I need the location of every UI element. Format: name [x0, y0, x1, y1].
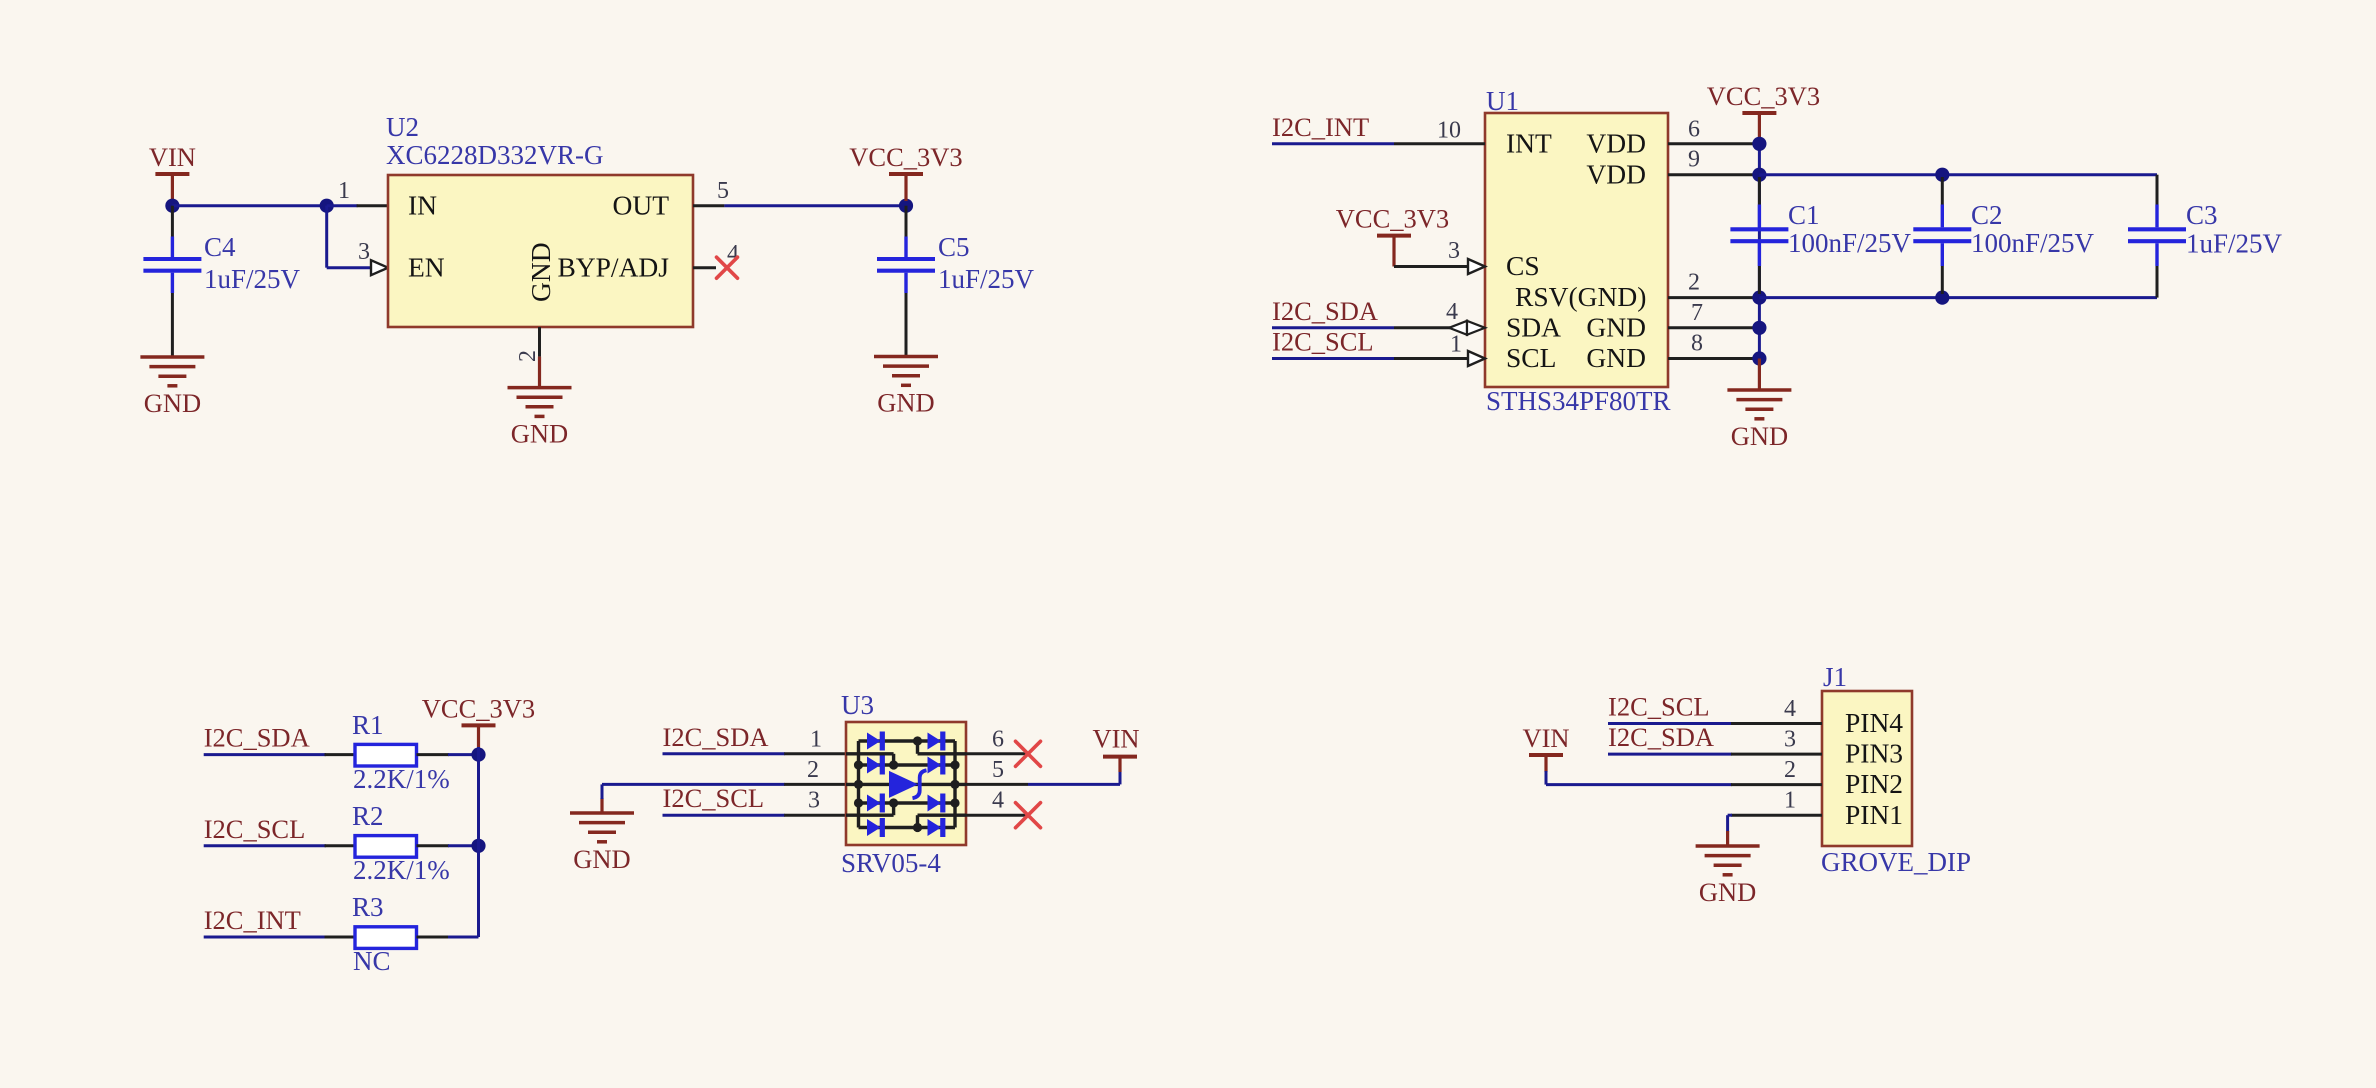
junction U1 pin7	[1752, 321, 1766, 335]
U3 inner row4	[859, 826, 956, 829]
svg-text:VCC_3V3: VCC_3V3	[422, 693, 535, 723]
svg-text:2.2K/1%: 2.2K/1%	[353, 764, 450, 794]
diode D3a	[867, 794, 885, 813]
svg-text:C3: C3	[2186, 200, 2218, 230]
svg-text:GND: GND	[1731, 421, 1788, 451]
svg-text:9: 9	[1688, 147, 1700, 173]
U3 junction row1	[913, 736, 922, 745]
wire J1 pin1 to ground	[1728, 814, 1732, 817]
U1 pin 1 stub	[1394, 357, 1467, 360]
svg-text:4: 4	[992, 788, 1004, 814]
wire gnd to U3 pin2	[600, 798, 603, 813]
wire I2C_SCL to R2	[204, 844, 326, 847]
svg-text:1uF/25V: 1uF/25V	[938, 264, 1035, 294]
svg-text:1: 1	[1784, 788, 1796, 814]
ground near U3	[570, 813, 634, 842]
svg-text:I2C_SCL: I2C_SCL	[1608, 692, 1710, 722]
svg-text:2: 2	[1784, 757, 1796, 783]
wire VIN to J1 pin2	[1545, 771, 1548, 785]
wire I2C_SCL to U3 pin3	[663, 814, 786, 817]
U1 pin 10 stub	[1394, 142, 1485, 145]
junction U1 pin9	[1752, 168, 1766, 182]
connector J1 body	[1822, 691, 1912, 846]
wire VCC column R1-R3	[477, 747, 480, 937]
ground under C4	[140, 357, 204, 386]
svg-text:GND: GND	[1699, 877, 1756, 907]
capacitor C4	[171, 206, 174, 237]
zener TVS diode	[889, 771, 918, 798]
svg-text:1: 1	[810, 727, 822, 753]
diode array U3 body	[846, 722, 966, 845]
U1 pin 7 stub	[1668, 326, 1759, 329]
svg-text:1uF/25V: 1uF/25V	[2186, 229, 2283, 259]
svg-text:2: 2	[515, 350, 541, 362]
svg-text:R2: R2	[352, 801, 384, 831]
svg-text:5: 5	[717, 178, 729, 204]
wire R1 to VCC column	[417, 753, 450, 756]
svg-text:CS: CS	[1506, 250, 1540, 281]
U3 inner row1	[859, 739, 956, 742]
svg-text:VIN: VIN	[149, 142, 196, 172]
capacitor C2	[1941, 177, 1944, 205]
U3 pin 1 stub	[784, 752, 846, 755]
U1 pin 4 bidirectional arrow	[1449, 321, 1467, 335]
svg-text:1uF/25V: 1uF/25V	[204, 264, 301, 294]
svg-text:NC: NC	[353, 946, 391, 976]
svg-text:C4: C4	[204, 232, 236, 262]
U3 inner right rail	[953, 741, 956, 828]
svg-text:C2: C2	[1971, 200, 2003, 230]
wire EN branch vertical	[325, 206, 328, 268]
svg-text:C1: C1	[1788, 200, 1820, 230]
no-connect X on U3 pin 6	[1016, 741, 1041, 766]
svg-text:PIN4: PIN4	[1845, 707, 1903, 738]
svg-text:GND: GND	[877, 388, 934, 418]
ground under U2	[508, 388, 572, 417]
wire branch to U2 pin 1	[327, 204, 358, 207]
wire GND return rail	[1759, 296, 2157, 299]
junction C2 bottom	[1935, 291, 1949, 305]
svg-text:6: 6	[992, 726, 1004, 752]
U1 pin 4 stub	[1394, 326, 1450, 329]
junction U1 pin6	[1752, 137, 1766, 151]
svg-text:PIN2: PIN2	[1845, 768, 1903, 799]
U1 pin 3 arrow	[1468, 259, 1485, 274]
U3 junction row2 riser	[889, 760, 898, 769]
U3 junction center left-rail	[854, 780, 863, 789]
svg-text:6: 6	[1688, 116, 1700, 142]
svg-text:100nF/25V: 100nF/25V	[1788, 228, 1912, 258]
wire R3 to VCC column	[417, 936, 450, 939]
svg-text:GROVE_DIP: GROVE_DIP	[1821, 847, 1971, 877]
diode D1a	[867, 732, 885, 751]
svg-text:7: 7	[1691, 300, 1703, 326]
capacitor C1	[1758, 177, 1761, 205]
U3 inner row2	[859, 763, 956, 766]
svg-text:I2C_SDA: I2C_SDA	[1272, 296, 1378, 326]
svg-text:PIN3: PIN3	[1845, 738, 1903, 769]
resistor R2	[355, 836, 417, 858]
svg-text:VCC_3V3: VCC_3V3	[849, 142, 962, 172]
U1 pin 8 stub	[1668, 357, 1759, 360]
junction node VIN/C4	[165, 199, 179, 213]
U3 riser pin3	[846, 814, 894, 817]
diode D2a	[867, 756, 885, 775]
no-connect X on U2 pin 4	[717, 257, 738, 278]
svg-text:PIN1: PIN1	[1845, 799, 1903, 830]
svg-text:STHS34PF80TR: STHS34PF80TR	[1486, 386, 1671, 416]
U2 pin 5 stub	[693, 204, 724, 207]
U2 pin 1 stub	[357, 204, 388, 207]
U3 pin 3 stub	[784, 814, 846, 817]
U2 pin 4 stub	[693, 266, 716, 269]
wire I2C_SDA to R1	[204, 753, 326, 756]
svg-text:I2C_SCL: I2C_SCL	[663, 783, 765, 813]
wire VDD rail	[1759, 173, 2157, 176]
U1 pin 3 stub	[1394, 265, 1467, 268]
U3 inner row3	[859, 801, 956, 804]
wire U3 pin5 to VIN	[1028, 783, 1120, 786]
junction U1 pin8	[1752, 351, 1766, 365]
svg-text:8: 8	[1691, 331, 1703, 357]
U3 riser pin6	[918, 752, 967, 755]
wire I2C_SDA (U1)	[1272, 326, 1394, 329]
wire I2C_INT	[1272, 142, 1394, 145]
U2 pin 2 stub	[538, 327, 541, 357]
svg-text:GND: GND	[511, 419, 568, 449]
svg-text:C5: C5	[938, 232, 970, 262]
junction node OUT/C5	[899, 199, 913, 213]
svg-text:GND: GND	[525, 242, 556, 302]
wire I2C_SCL to J1	[1608, 722, 1732, 725]
svg-text:SCL: SCL	[1506, 342, 1556, 373]
junction node IN/EN branch	[320, 199, 334, 213]
U3 junction row2 left-rail	[854, 760, 863, 769]
wire I2C_SDA to U3 pin1	[663, 752, 786, 755]
U3 junction row4	[913, 823, 922, 832]
svg-text:I2C_INT: I2C_INT	[204, 905, 301, 935]
svg-text:J1: J1	[1823, 662, 1847, 692]
no-connect X on U3 pin 4	[1016, 803, 1041, 828]
svg-text:VIN: VIN	[1522, 723, 1569, 753]
U3 pin 5 stub	[966, 783, 1028, 786]
U1 pin 9 stub	[1668, 173, 1759, 176]
U3 junction center right-rail	[950, 780, 959, 789]
svg-text:SDA: SDA	[1506, 311, 1561, 342]
svg-text:3: 3	[1784, 727, 1796, 753]
svg-text:U3: U3	[841, 690, 874, 720]
svg-text:3: 3	[1448, 238, 1460, 264]
junction U1 pin2	[1752, 291, 1766, 305]
svg-text:R3: R3	[352, 892, 384, 922]
op-amp U1 body	[1485, 113, 1668, 387]
svg-text:U2: U2	[386, 112, 419, 142]
wire I2C_SDA to J1	[1608, 753, 1732, 756]
ground under U1	[1727, 390, 1791, 419]
wire EN branch horizontal	[327, 266, 374, 269]
U3 junction row3 riser	[889, 798, 898, 807]
U3 pin 6 stub	[966, 752, 1028, 755]
wire U2 pin2 to ground	[538, 357, 541, 388]
svg-text:XC6228D332VR-G: XC6228D332VR-G	[386, 140, 604, 170]
svg-text:I2C_INT: I2C_INT	[1272, 112, 1369, 142]
svg-text:1: 1	[338, 178, 350, 204]
svg-text:5: 5	[992, 757, 1004, 783]
U3 inner left rail	[857, 741, 860, 828]
svg-text:2.2K/1%: 2.2K/1%	[353, 855, 450, 885]
svg-text:I2C_SCL: I2C_SCL	[204, 814, 306, 844]
svg-text:4: 4	[1446, 299, 1458, 325]
capacitor C3	[2156, 175, 2159, 205]
svg-text:GND: GND	[144, 388, 201, 418]
resistor R3	[355, 927, 417, 949]
U3 riser pin1	[846, 752, 894, 755]
wire R2 to VCC column	[417, 844, 450, 847]
wire VIN to EN-branch node	[172, 204, 326, 207]
svg-text:RSV(GND): RSV(GND)	[1515, 281, 1646, 312]
U1 pin 1 arrow	[1468, 351, 1485, 366]
svg-text:4: 4	[1784, 696, 1796, 722]
J1 pin 1 stub	[1731, 814, 1822, 817]
wire I2C_SCL (U1)	[1272, 357, 1394, 360]
U3 pin 4 stub	[966, 814, 1028, 817]
svg-text:10: 10	[1437, 118, 1461, 144]
junction C2 top	[1935, 168, 1949, 182]
U1 pin 2 stub	[1668, 296, 1759, 299]
ground under J1	[1696, 846, 1760, 875]
resistor R1	[355, 744, 417, 766]
svg-text:U1: U1	[1486, 86, 1519, 116]
svg-text:I2C_SDA: I2C_SDA	[1608, 722, 1714, 752]
U3 junction row2 right-rail	[950, 760, 959, 769]
capacitor C5	[905, 206, 908, 237]
svg-text:VDD: VDD	[1586, 127, 1646, 158]
svg-text:VCC_3V3: VCC_3V3	[1336, 204, 1449, 234]
svg-text:SRV05-4: SRV05-4	[841, 848, 941, 878]
svg-text:VIN: VIN	[1092, 724, 1139, 754]
svg-text:VDD: VDD	[1586, 158, 1646, 189]
U1 pin 6 stub	[1668, 142, 1759, 145]
junction R2/VCC	[471, 839, 485, 853]
diode D3b	[928, 794, 946, 813]
svg-text:100nF/25V: 100nF/25V	[1971, 228, 2095, 258]
svg-text:2: 2	[807, 757, 819, 783]
diode D1b	[928, 732, 946, 751]
svg-text:INT: INT	[1506, 127, 1552, 158]
svg-text:1: 1	[1450, 332, 1462, 358]
U3 junction row3 right-rail	[950, 798, 959, 807]
svg-text:R1: R1	[352, 710, 384, 740]
wire I2C_INT to R3	[204, 936, 326, 939]
U3 riser pin4	[918, 814, 967, 817]
svg-text:GND: GND	[1586, 342, 1646, 373]
svg-text:3: 3	[808, 788, 820, 814]
svg-text:IN: IN	[408, 189, 437, 220]
U3 pin 2 stub	[784, 783, 846, 786]
svg-text:3: 3	[358, 239, 370, 265]
diode D4a	[867, 818, 885, 837]
svg-text:I2C_SCL: I2C_SCL	[1272, 327, 1374, 357]
svg-text:I2C_SDA: I2C_SDA	[663, 722, 769, 752]
wire VDD column	[1758, 144, 1761, 359]
junction R1/VCC	[471, 748, 485, 762]
svg-text:GND: GND	[1586, 311, 1646, 342]
wire OUT to VCC node	[724, 204, 906, 207]
svg-text:EN: EN	[408, 251, 445, 282]
op-amp U2 body	[388, 175, 693, 327]
J1 pin 3 stub	[1731, 753, 1822, 756]
J1 pin 2 stub	[1731, 783, 1822, 786]
U2 pin 3 arrow	[371, 260, 388, 275]
diode D4b	[928, 818, 946, 837]
svg-text:VCC_3V3: VCC_3V3	[1707, 81, 1820, 111]
svg-text:OUT: OUT	[612, 189, 669, 220]
ground under C5	[874, 357, 938, 386]
U3 inner center row	[846, 783, 966, 786]
diode D2b	[928, 756, 946, 775]
svg-text:I2C_SDA: I2C_SDA	[204, 723, 310, 753]
U3 junction row3 left-rail	[854, 798, 863, 807]
wire U1 gnd column	[1758, 359, 1761, 391]
svg-text:BYP/ADJ: BYP/ADJ	[557, 251, 669, 282]
J1 pin 4 stub	[1731, 722, 1822, 725]
svg-text:GND: GND	[573, 844, 630, 874]
svg-text:2: 2	[1688, 270, 1700, 296]
